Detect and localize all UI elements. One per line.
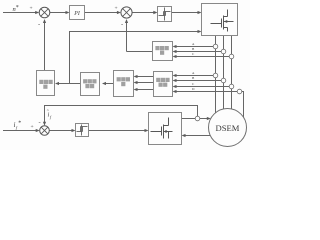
svg-text:DSEM: DSEM xyxy=(216,123,240,133)
svg-text:+: + xyxy=(115,6,118,12)
svg-text:+: + xyxy=(30,6,33,12)
svg-text:-: - xyxy=(39,119,41,126)
svg-text:*: * xyxy=(16,5,19,11)
svg-text:PI: PI xyxy=(73,11,81,17)
svg-text:-: - xyxy=(38,22,40,29)
svg-text:*: * xyxy=(18,121,21,127)
svg-text:+: + xyxy=(31,124,34,130)
svg-text:-: - xyxy=(121,21,123,28)
